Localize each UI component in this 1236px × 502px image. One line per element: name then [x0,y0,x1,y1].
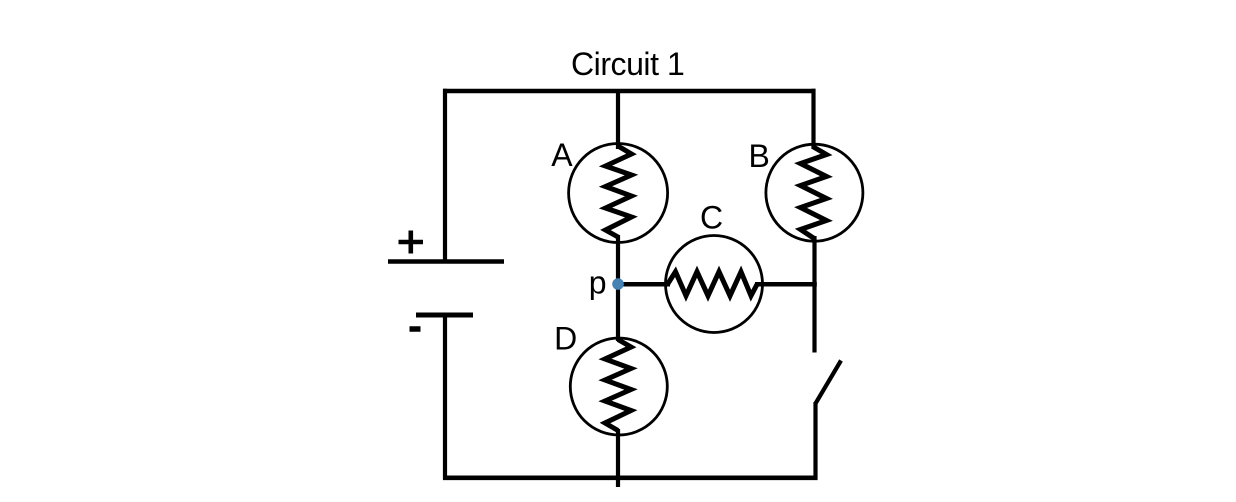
wire bottom rail [443,475,818,480]
wire top rail [443,89,816,94]
wire middle horizontal from lamp C to right branch [755,282,817,287]
lamp C [666,236,763,333]
svg-text:D: D [554,321,577,357]
wire middle branch between lamp A and lamp D (through node p) [616,235,620,341]
wire middle branch below lamp D [616,429,620,487]
battery BT1 positive plate [388,259,504,264]
svg-text:B: B [749,138,770,174]
wire middle branch top lead (top rail to lamp A) [616,91,620,149]
lamp D [570,338,667,435]
svg-text:p: p [589,264,607,300]
lamp B [766,144,863,241]
wire left branch lower (battery - to bottom rail) [443,315,447,480]
wire right branch below switch [813,402,817,480]
wire left branch upper (top rail to battery +) [443,89,447,262]
battery BT1 minus label [410,326,421,332]
wire middle horizontal from node p to lamp C [618,282,670,287]
svg-text:C: C [700,200,723,236]
battery BT1 negative plate [416,313,473,318]
node p junction dot [612,278,624,290]
battery BT1 plus label [399,231,424,254]
lamp A [569,144,668,243]
wire right branch top lead (top rail to lamp B) [811,89,815,149]
wire right branch between lamp B and switch [812,236,816,353]
switch S1 blade (open) [816,361,842,404]
svg-text:Circuit 1: Circuit 1 [571,46,684,82]
svg-text:A: A [551,137,573,173]
